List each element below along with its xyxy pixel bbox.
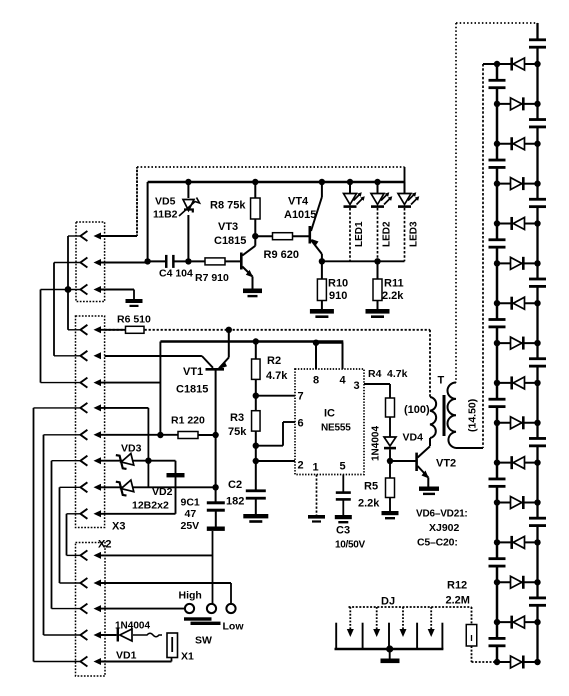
svg-text:R2: R2 <box>267 355 281 367</box>
svg-text:C1815: C1815 <box>176 384 208 396</box>
svg-text:7: 7 <box>298 391 304 403</box>
svg-text:12B2x2: 12B2x2 <box>132 500 169 512</box>
svg-text:4.7k: 4.7k <box>266 370 288 382</box>
svg-text:1N4004: 1N4004 <box>115 621 150 632</box>
svg-text:NE555: NE555 <box>321 423 351 434</box>
svg-text:VT1: VT1 <box>183 366 203 378</box>
svg-text:9C1: 9C1 <box>181 497 200 509</box>
svg-text:1N4004: 1N4004 <box>371 426 382 461</box>
svg-text:R5: R5 <box>364 481 378 493</box>
svg-text:A1015: A1015 <box>284 209 316 221</box>
svg-text:R10: R10 <box>328 278 348 290</box>
svg-text:VT2: VT2 <box>436 458 456 470</box>
svg-text:LED2: LED2 <box>382 221 393 247</box>
svg-text:182: 182 <box>226 496 244 508</box>
svg-text:LED1: LED1 <box>354 221 365 247</box>
svg-text:25V: 25V <box>181 520 200 532</box>
svg-text:R11: R11 <box>384 278 404 290</box>
svg-text:X3: X3 <box>112 521 125 533</box>
svg-text:4: 4 <box>340 375 347 387</box>
svg-text:5: 5 <box>340 461 346 473</box>
svg-text:C1815: C1815 <box>214 235 246 247</box>
svg-text:Low: Low <box>223 621 245 633</box>
svg-text:75k: 75k <box>228 426 247 438</box>
svg-text:2: 2 <box>298 460 304 472</box>
svg-text:R4: R4 <box>368 368 382 380</box>
svg-text:R3: R3 <box>230 412 244 424</box>
svg-text:10/50V: 10/50V <box>335 540 366 551</box>
svg-text:1: 1 <box>313 462 319 474</box>
svg-text:C5–C20:: C5–C20: <box>417 537 458 549</box>
svg-text:SW: SW <box>195 635 212 647</box>
svg-text:VD3: VD3 <box>121 443 142 455</box>
svg-text:R7 910: R7 910 <box>195 272 229 284</box>
svg-text:C3: C3 <box>336 525 350 537</box>
svg-text:(14.50): (14.50) <box>467 399 479 432</box>
svg-text:VD2: VD2 <box>152 486 173 498</box>
svg-text:X2: X2 <box>98 539 111 551</box>
svg-text:11B2: 11B2 <box>153 209 178 221</box>
svg-text:(100): (100) <box>404 404 430 416</box>
svg-text:X1: X1 <box>181 651 194 663</box>
svg-text:VD5: VD5 <box>155 196 176 208</box>
svg-text:High: High <box>179 590 202 602</box>
svg-text:R12: R12 <box>447 580 467 592</box>
svg-text:LED3: LED3 <box>409 221 420 247</box>
svg-text:C2: C2 <box>228 479 242 491</box>
svg-text:IC: IC <box>324 408 335 420</box>
svg-text:3: 3 <box>354 380 360 392</box>
svg-text:R8 75k: R8 75k <box>210 200 246 212</box>
svg-text:6: 6 <box>298 418 304 430</box>
svg-text:910: 910 <box>329 290 347 302</box>
svg-text:R6 510: R6 510 <box>117 314 151 326</box>
svg-text:C4 104: C4 104 <box>159 268 193 280</box>
svg-text:R9 620: R9 620 <box>264 249 299 261</box>
svg-text:VD4: VD4 <box>403 432 424 444</box>
svg-text:T: T <box>438 375 445 387</box>
svg-text:2.2k: 2.2k <box>382 290 404 302</box>
svg-text:47: 47 <box>185 508 197 520</box>
svg-text:XJ902: XJ902 <box>429 522 460 534</box>
svg-text:VD6–VD21:: VD6–VD21: <box>416 509 468 520</box>
svg-text:DJ: DJ <box>381 596 395 608</box>
svg-text:VT3: VT3 <box>218 221 238 233</box>
svg-text:8: 8 <box>313 375 319 387</box>
svg-text:4.7k: 4.7k <box>387 368 408 380</box>
svg-text:R1 220: R1 220 <box>171 415 205 427</box>
svg-text:2.2k: 2.2k <box>358 498 380 510</box>
svg-text:2.2M: 2.2M <box>446 595 470 607</box>
svg-text:VT4: VT4 <box>288 196 309 208</box>
svg-text:VD1: VD1 <box>116 650 137 662</box>
